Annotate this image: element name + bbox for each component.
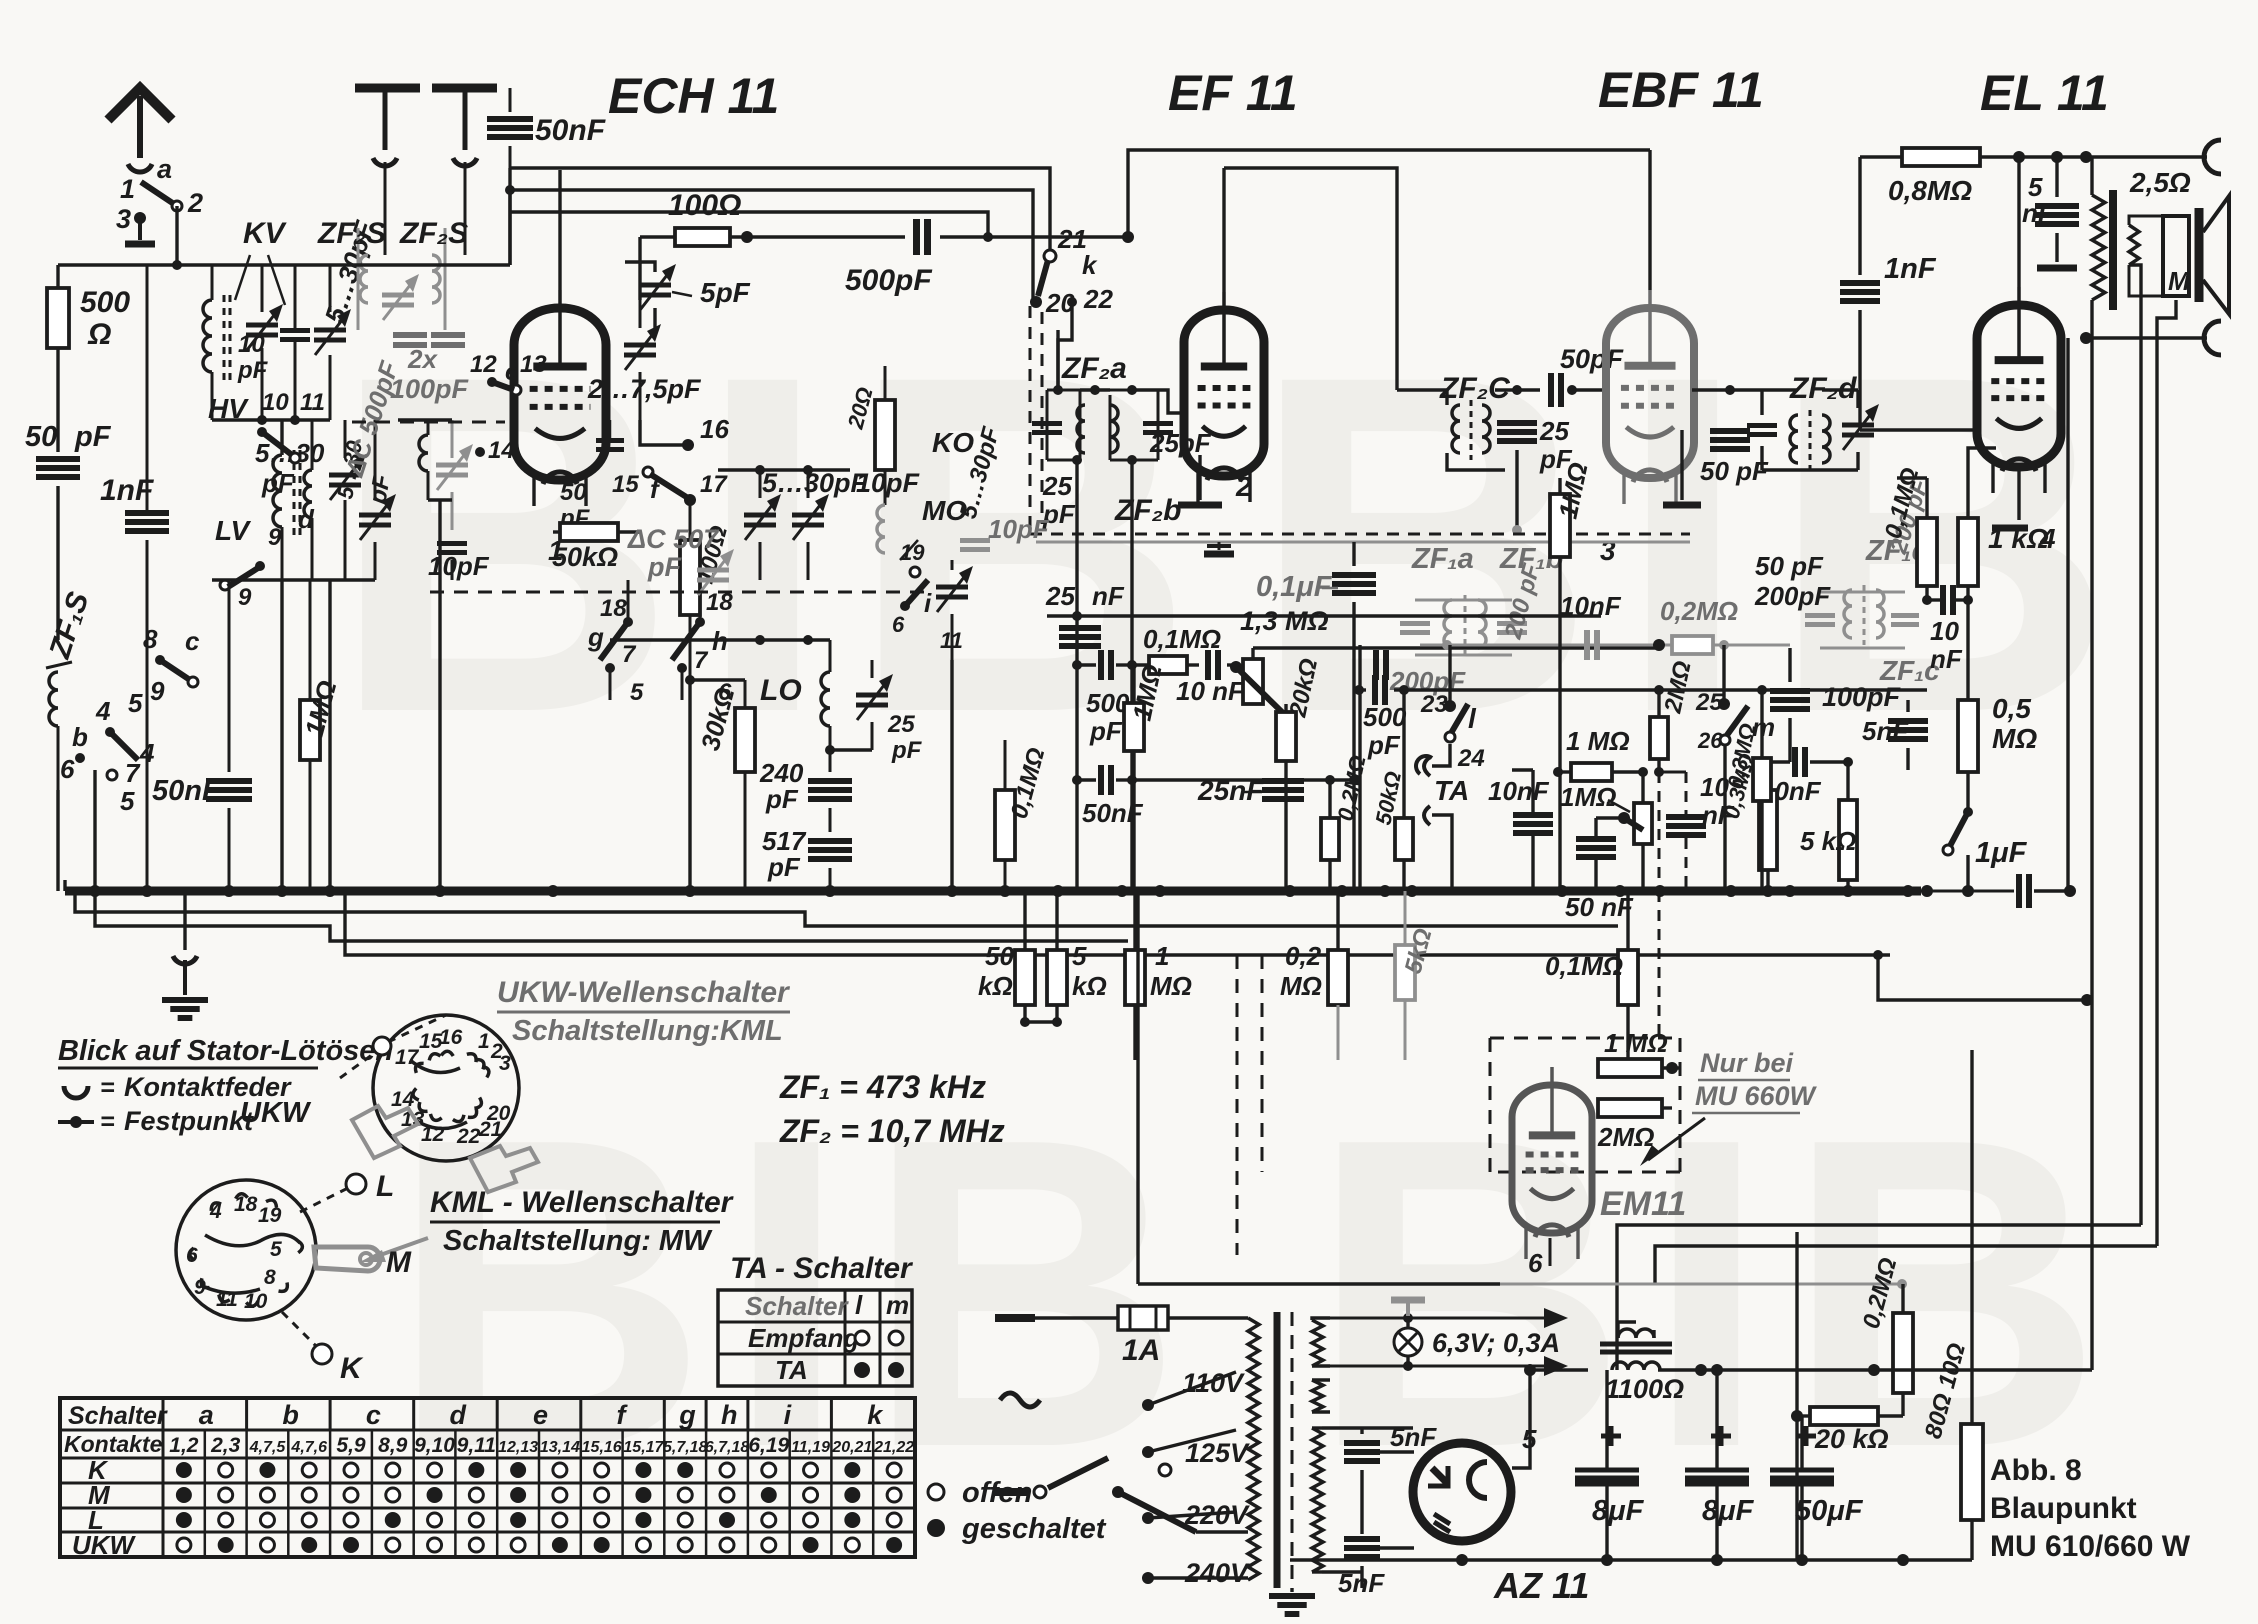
resistor 1Mohm h bbox=[1553, 726, 1664, 781]
dashed em11 link a bbox=[1658, 772, 1661, 1038]
svg-text:10nF: 10nF bbox=[1488, 776, 1550, 806]
resistor 20kohm bbox=[1791, 1407, 1903, 1454]
svg-text:d: d bbox=[449, 1400, 466, 1430]
svg-text:13,14: 13,14 bbox=[540, 1439, 580, 1456]
dashed em11 link b bbox=[1659, 772, 1686, 891]
svg-text:14: 14 bbox=[488, 437, 515, 464]
long vertical b bbox=[2066, 338, 2069, 891]
ukw filter gray box bbox=[317, 217, 468, 330]
vertical 1360 bbox=[1358, 645, 1361, 891]
svg-text:Blick auf Stator-Lötösen: Blick auf Stator-Lötösen bbox=[58, 1035, 393, 1067]
svg-text:22: 22 bbox=[456, 1125, 481, 1148]
label 4 under EL11 bbox=[2039, 523, 2056, 554]
svg-text:l: l bbox=[855, 1290, 863, 1320]
svg-text:ZF₁a: ZF₁a bbox=[1411, 543, 1474, 575]
osc LO coil bbox=[760, 640, 923, 764]
coil KV input bbox=[203, 265, 212, 420]
resistor 1Mohm mid bbox=[1550, 460, 1594, 891]
capacitor 100pF bbox=[1770, 682, 1902, 712]
svg-text:13: 13 bbox=[520, 351, 547, 378]
svg-text:kΩ: kΩ bbox=[1072, 971, 1107, 1001]
svg-text:5: 5 bbox=[1072, 941, 1087, 971]
trimmer 5-30 pF lower bbox=[332, 420, 396, 580]
svg-text:18: 18 bbox=[600, 595, 627, 622]
wafer KML rotor bbox=[200, 1234, 300, 1293]
svg-text:pF: pF bbox=[261, 468, 295, 498]
arrow nurbei bbox=[1640, 1118, 1705, 1166]
resistor 500ohm bbox=[47, 265, 130, 351]
resistor 50kohm osc bbox=[552, 523, 640, 572]
svg-text:6,7,18: 6,7,18 bbox=[705, 1439, 750, 1456]
wire ECH11 anode top bbox=[558, 170, 561, 290]
capacitor 10nF right bbox=[1760, 747, 1853, 806]
svg-text:e: e bbox=[505, 359, 518, 386]
heater arrows bbox=[1330, 1308, 1568, 1376]
tap 220V bbox=[1142, 1500, 1250, 1530]
capacitor 500pF coupling2 bbox=[1086, 650, 1386, 746]
svg-text:AZ 11: AZ 11 bbox=[1493, 1565, 1589, 1606]
svg-text:50μF: 50μF bbox=[1795, 1495, 1864, 1527]
svg-text:Kontakte: Kontakte bbox=[64, 1431, 163, 1457]
capacitor 1nF bbox=[100, 265, 169, 891]
svg-text:d: d bbox=[298, 504, 315, 534]
capacitor 10nF pair bbox=[1922, 585, 1973, 674]
svg-text:6,19: 6,19 bbox=[748, 1434, 789, 1457]
capacitor 10pF osc bbox=[428, 544, 490, 582]
svg-text:7: 7 bbox=[694, 647, 709, 674]
svg-text:pF: pF bbox=[364, 471, 396, 507]
row y780 bbox=[1077, 765, 1144, 828]
svg-text:i: i bbox=[924, 588, 932, 618]
wire f col bbox=[685, 675, 745, 891]
resistor 100ohm2 bbox=[680, 500, 733, 680]
switch f 15-17 bbox=[559, 420, 728, 532]
speaker bbox=[2129, 196, 2229, 314]
wire HT to AZ bbox=[1322, 1428, 1413, 1572]
bottom line bbox=[1290, 1554, 1972, 1566]
svg-text:HV: HV bbox=[208, 393, 249, 424]
svg-text:KO: KO bbox=[932, 427, 974, 458]
wire 5nF to AZ bbox=[1380, 1452, 1414, 1548]
svg-text:=: = bbox=[100, 1108, 115, 1136]
svg-text:50nF: 50nF bbox=[152, 775, 221, 807]
svg-text:1nF: 1nF bbox=[100, 474, 154, 507]
svg-text:geschaltet: geschaltet bbox=[961, 1513, 1107, 1545]
svg-text:100pF: 100pF bbox=[390, 374, 470, 404]
tap 240V bbox=[1142, 1558, 1250, 1588]
contact table kontakte row bbox=[64, 1430, 914, 1557]
tube EBF11 bbox=[1606, 290, 1694, 504]
svg-text:8μF: 8μF bbox=[1702, 1495, 1755, 1527]
hook out top bbox=[2204, 140, 2221, 174]
svg-text:ECH 11: ECH 11 bbox=[608, 68, 779, 124]
legend offen bbox=[927, 1477, 1107, 1545]
dashed pair k bbox=[1030, 306, 1042, 534]
capacitor 50nF top bbox=[487, 88, 606, 190]
svg-text:1,2: 1,2 bbox=[169, 1434, 199, 1457]
svg-text:25: 25 bbox=[1042, 471, 1072, 501]
wire top row input bbox=[177, 263, 330, 266]
svg-text:20: 20 bbox=[486, 1102, 511, 1125]
svg-text:a: a bbox=[199, 1400, 214, 1430]
resistor 50kohm col bbox=[978, 891, 1035, 1022]
rail outer bbox=[510, 168, 1050, 250]
potentiometer 1Mohm bbox=[1618, 772, 1652, 891]
wire node row bbox=[58, 260, 182, 270]
wire bus left end bbox=[63, 880, 66, 891]
label 5-30 pF small bbox=[255, 438, 325, 498]
svg-text:19: 19 bbox=[900, 540, 925, 565]
svg-text:h: h bbox=[721, 1400, 738, 1430]
IF ZF1d gray bbox=[1754, 475, 1940, 686]
transformer heater sec bbox=[1312, 1318, 1330, 1366]
shield ground tee bbox=[1204, 542, 1234, 554]
svg-text:3: 3 bbox=[1600, 535, 1616, 566]
tube EF11 bbox=[1184, 292, 1264, 502]
svg-text:500: 500 bbox=[1363, 702, 1407, 732]
wire gray diode line bbox=[1420, 640, 1790, 650]
label Blick bbox=[58, 1035, 393, 1068]
svg-text:8μF: 8μF bbox=[1592, 1495, 1645, 1527]
svg-text:19: 19 bbox=[258, 1204, 282, 1227]
switch g h contacts bbox=[587, 580, 733, 706]
label KV bbox=[235, 217, 288, 305]
svg-text:kΩ: kΩ bbox=[978, 971, 1013, 1001]
svg-text:MU 660W: MU 660W bbox=[1695, 1081, 1818, 1111]
svg-text:50nF: 50nF bbox=[535, 114, 606, 147]
capacitor 10nF black bbox=[1666, 772, 1735, 835]
svg-text:50 pF: 50 pF bbox=[1700, 456, 1769, 486]
transformer core bbox=[1277, 1312, 1292, 1588]
svg-text:Ω: Ω bbox=[87, 318, 111, 351]
trimmer LV bbox=[329, 420, 366, 580]
capacitor 500pF coupling bbox=[845, 219, 1134, 297]
svg-text:TA - Schalter: TA - Schalter bbox=[730, 1252, 914, 1285]
svg-text:12: 12 bbox=[470, 351, 497, 378]
svg-text:5…30pF: 5…30pF bbox=[762, 468, 869, 498]
tube ECH11 bbox=[514, 290, 606, 506]
capacitor 0.1uF bbox=[1256, 542, 1376, 891]
svg-text:9,10: 9,10 bbox=[414, 1434, 455, 1457]
svg-text:M: M bbox=[386, 1246, 412, 1279]
trimmer KV bbox=[246, 265, 283, 420]
svg-text:20,21: 20,21 bbox=[831, 1439, 872, 1456]
wafer UKW contacts bbox=[412, 1051, 491, 1124]
svg-text:UKW-Wellenschalter: UKW-Wellenschalter bbox=[497, 976, 791, 1009]
resistor 0.1Mohm right bbox=[1880, 465, 1937, 600]
wire LO trim bottom bbox=[830, 748, 872, 751]
capacitor 5nF b bbox=[1338, 1539, 1385, 1598]
svg-text:10nF: 10nF bbox=[1560, 591, 1622, 621]
core HV bbox=[294, 450, 300, 535]
svg-text:50 pF: 50 pF bbox=[1755, 551, 1824, 581]
capacitor 25nF branch bbox=[1197, 775, 1304, 806]
IF transformer ZF2a label bbox=[1061, 352, 1127, 385]
resistor 0.1Mohm col bbox=[1545, 891, 1638, 1060]
wire 50nF down bbox=[330, 185, 515, 265]
wire AZ11 out bbox=[1512, 1370, 1537, 1468]
svg-text:3: 3 bbox=[116, 204, 131, 234]
svg-text:pF: pF bbox=[765, 784, 799, 814]
wire net gray bbox=[1500, 1279, 1907, 1289]
EL11 cathode gnd bbox=[1992, 467, 2028, 528]
svg-text:10pF: 10pF bbox=[428, 551, 490, 581]
trimmer row osc bbox=[718, 465, 921, 580]
svg-text:L: L bbox=[376, 1170, 394, 1203]
wire EBF11 anode rail bbox=[1648, 150, 1651, 290]
label ECH11 bbox=[608, 68, 779, 124]
capacitor 517pF bbox=[762, 808, 852, 891]
svg-text:1μF: 1μF bbox=[1975, 837, 2028, 869]
svg-text:500pF: 500pF bbox=[845, 264, 932, 297]
capacitor 240pF bbox=[759, 745, 852, 814]
svg-text:1,3 MΩ: 1,3 MΩ bbox=[1240, 606, 1329, 636]
top rail out bbox=[1860, 151, 2207, 163]
rail mid bbox=[510, 190, 1033, 298]
svg-text:23: 23 bbox=[1420, 691, 1448, 718]
svg-text:10pF: 10pF bbox=[856, 468, 921, 498]
capacitor 5nF out bbox=[2022, 157, 2079, 268]
transformer HT sec bbox=[1312, 1428, 1323, 1572]
osc trimmer gray bbox=[436, 420, 473, 530]
tap 125V bbox=[1142, 1430, 1250, 1468]
tap 110V bbox=[1142, 1368, 1245, 1411]
svg-text:10pF: 10pF bbox=[988, 514, 1050, 544]
svg-text:LO: LO bbox=[760, 674, 802, 707]
wafer KML contacts bbox=[189, 1193, 303, 1307]
capacitor 50pF coupling bbox=[1551, 344, 1625, 407]
TA hooks bbox=[1416, 744, 1469, 891]
resistor 20kohm pot bbox=[1276, 656, 1323, 891]
wire zf1c col bbox=[1788, 648, 1791, 762]
svg-text:nF: nF bbox=[1930, 644, 1963, 674]
elcap 8uF b bbox=[1685, 1364, 1755, 1560]
switch d bbox=[257, 427, 300, 463]
resistor 1Mohm em bbox=[1598, 1028, 1680, 1077]
wire y616 line bbox=[1047, 614, 1601, 617]
svg-text:UKW: UKW bbox=[240, 1097, 312, 1129]
svg-text:2: 2 bbox=[187, 188, 203, 218]
wire 2-7.5 branch bbox=[640, 262, 688, 445]
svg-text:EBF 11: EBF 11 bbox=[1598, 62, 1764, 118]
wire 50pF down bbox=[56, 486, 59, 640]
resistor 1kohm bbox=[1958, 448, 2049, 600]
capacitor 10pF gray bbox=[960, 514, 1050, 550]
mains switch bbox=[995, 1458, 1248, 1532]
svg-text:125V: 125V bbox=[1185, 1438, 1250, 1468]
svg-text:8: 8 bbox=[143, 624, 158, 654]
resistor 1Mohm vert bbox=[1124, 662, 1168, 891]
ground bus bbox=[65, 887, 2014, 896]
switch right bbox=[1943, 807, 1973, 891]
svg-text:25pF: 25pF bbox=[1149, 428, 1212, 458]
return wire B bbox=[95, 891, 1128, 941]
svg-text:=: = bbox=[100, 1074, 115, 1102]
svg-text:6: 6 bbox=[186, 1244, 198, 1267]
transformer primary bbox=[1248, 1318, 1259, 1580]
svg-text:22: 22 bbox=[1083, 284, 1113, 314]
svg-text:12,13: 12,13 bbox=[498, 1439, 538, 1456]
svg-text:8,9: 8,9 bbox=[378, 1434, 408, 1457]
osc MO coil bbox=[892, 423, 1005, 660]
wire ZF2c down bbox=[1512, 450, 1522, 535]
long vertical d bbox=[2129, 265, 2141, 1225]
capacitor 1nF right bbox=[1840, 253, 1937, 430]
svg-text:1A: 1A bbox=[1122, 1334, 1160, 1367]
svg-text:5: 5 bbox=[270, 1238, 282, 1261]
arrow KML bbox=[360, 1238, 428, 1262]
resistor 0.3Mohm v bbox=[1722, 690, 1771, 891]
resistor 1Mohm col bbox=[1125, 891, 1192, 1060]
svg-text:pF: pF bbox=[891, 737, 923, 764]
capacitor 10nF right ta bbox=[1488, 770, 1553, 891]
svg-text:4,7,5: 4,7,5 bbox=[249, 1439, 287, 1456]
svg-text:10: 10 bbox=[262, 389, 289, 416]
svg-text:TA: TA bbox=[775, 1355, 808, 1385]
svg-text:UKW: UKW bbox=[72, 1530, 137, 1560]
pilot lamp bbox=[1394, 1313, 1560, 1371]
svg-text:1: 1 bbox=[120, 174, 135, 204]
svg-text:ΔC 507: ΔC 507 bbox=[627, 524, 720, 554]
TA table title bbox=[730, 1252, 914, 1285]
svg-text:3: 3 bbox=[499, 1052, 511, 1075]
svg-text:0,8MΩ: 0,8MΩ bbox=[1888, 175, 1972, 206]
svg-text:50kΩ: 50kΩ bbox=[552, 542, 618, 572]
resistor 80ohm bbox=[1920, 1050, 1983, 1560]
wire 500ohm down bbox=[56, 348, 59, 452]
label 6 bbox=[1528, 1238, 1550, 1278]
coil ZF1S bbox=[46, 662, 72, 790]
legend Kontaktfeder bbox=[64, 1072, 292, 1102]
label EM11 bbox=[1600, 1185, 1686, 1223]
wire ZF2b bottom drop bbox=[1127, 460, 1137, 891]
svg-text:4: 4 bbox=[209, 1200, 222, 1223]
B+ line bbox=[1658, 1364, 2092, 1376]
svg-text:b: b bbox=[282, 1400, 299, 1430]
svg-text:2…7,5pF: 2…7,5pF bbox=[587, 374, 702, 404]
IF transformer ZF2ab bbox=[1032, 330, 1212, 529]
svg-text:6: 6 bbox=[892, 612, 905, 637]
wafer gray keys bbox=[352, 1106, 538, 1192]
svg-text:i: i bbox=[784, 1400, 792, 1430]
svg-text:Blaupunkt: Blaupunkt bbox=[1990, 1492, 2137, 1525]
svg-text:50nF: 50nF bbox=[1082, 798, 1144, 828]
wire 100ohm left elbow bbox=[625, 237, 640, 262]
label EF11 bbox=[1168, 65, 1298, 121]
switch e 12-13-14 bbox=[470, 351, 547, 464]
output transformer bbox=[2092, 157, 2191, 338]
capacitor 10nF gray bbox=[1540, 591, 1648, 660]
svg-text:4,7,6: 4,7,6 bbox=[290, 1439, 327, 1456]
svg-text:9: 9 bbox=[150, 676, 165, 706]
svg-text:10: 10 bbox=[238, 331, 265, 358]
TA table bbox=[718, 1290, 912, 1386]
capacitor 2-7.5pF bbox=[587, 300, 702, 420]
wire out lower bbox=[2080, 321, 2221, 355]
svg-text:0,2: 0,2 bbox=[1285, 941, 1322, 971]
resistor 30kohm bbox=[695, 680, 755, 891]
wire EBF11 top to left rail bbox=[1128, 150, 1650, 237]
svg-text:ZF₂a: ZF₂a bbox=[1061, 352, 1127, 385]
wire 0.1M top bbox=[1897, 476, 1927, 479]
resistor 0.2Mohm ta bbox=[1321, 753, 1371, 891]
svg-text:ZF₂ = 10,7 MHz: ZF₂ = 10,7 MHz bbox=[779, 1113, 1005, 1149]
svg-text:EM11: EM11 bbox=[1600, 1185, 1686, 1223]
svg-text:0,5: 0,5 bbox=[1992, 693, 2031, 724]
svg-text:9,11: 9,11 bbox=[457, 1434, 496, 1457]
svg-text:9: 9 bbox=[268, 524, 282, 551]
long vertical a bbox=[1136, 891, 1139, 1284]
tube EL11 bbox=[1977, 287, 2061, 493]
osc KO coil bbox=[842, 366, 974, 553]
svg-text:50: 50 bbox=[560, 479, 587, 506]
svg-text:11: 11 bbox=[940, 628, 963, 653]
svg-text:24: 24 bbox=[1457, 745, 1485, 772]
label UKW-Wellenschalter bbox=[497, 976, 791, 1047]
svg-text:Festpunkt: Festpunkt bbox=[124, 1106, 254, 1136]
svg-text:c: c bbox=[185, 626, 200, 656]
wire antenna to node bbox=[175, 206, 178, 265]
svg-text:pF: pF bbox=[74, 421, 112, 453]
svg-text:K: K bbox=[340, 1352, 364, 1385]
IF ZF2c bbox=[1397, 372, 1573, 474]
resistor 0.1Mohm osc bbox=[995, 740, 1051, 891]
wire osc mid row bbox=[610, 635, 830, 645]
contact table group header bbox=[68, 1398, 884, 1430]
svg-text:nF: nF bbox=[1702, 800, 1735, 830]
transformer mid sec bbox=[1312, 1380, 1330, 1412]
svg-text:pF: pF bbox=[1089, 716, 1123, 746]
trimmer dC507 gray bbox=[627, 524, 734, 595]
svg-text:a: a bbox=[157, 154, 172, 184]
svg-text:8: 8 bbox=[264, 1266, 276, 1289]
legend Festpunkt bbox=[58, 1106, 254, 1136]
svg-text:25: 25 bbox=[1695, 689, 1723, 716]
svg-text:16: 16 bbox=[700, 414, 729, 444]
svg-text:50pF: 50pF bbox=[1560, 344, 1625, 374]
resistor 0.3Mohm bbox=[1719, 751, 1777, 891]
svg-text:4: 4 bbox=[95, 696, 111, 726]
svg-text:1: 1 bbox=[1155, 941, 1169, 971]
long vertical e bbox=[2157, 300, 2176, 1246]
IF ZF1ab gray bbox=[1389, 543, 1563, 696]
svg-text:5nF: 5nF bbox=[1862, 716, 1909, 746]
label Abb8 bbox=[1990, 1454, 2191, 1563]
svg-text:Schalter: Schalter bbox=[745, 1291, 849, 1321]
resistor 1Mohm left bbox=[299, 580, 343, 891]
switch l bbox=[1420, 645, 1485, 772]
resistor 0.2Mohm col bbox=[1280, 891, 1348, 1060]
svg-text:1100Ω: 1100Ω bbox=[1605, 1374, 1684, 1404]
wafer KML numbers bbox=[186, 1193, 282, 1313]
antenna bbox=[108, 88, 172, 172]
EF11 cathode ground bbox=[1178, 455, 1222, 505]
resistor 0.5Mohm bbox=[1958, 600, 2037, 812]
svg-text:100pF: 100pF bbox=[1822, 682, 1902, 712]
return wire E bbox=[1873, 950, 2093, 1006]
svg-text:2: 2 bbox=[1235, 471, 1252, 502]
wafer UKW rotor bbox=[410, 1060, 467, 1129]
label 3 under EBF11 bbox=[1600, 535, 1616, 566]
label Nurbei bbox=[1692, 1048, 1818, 1113]
wafer KML circle bbox=[176, 1180, 316, 1320]
resistor 2Mohm em bbox=[1597, 1099, 1672, 1152]
wire EF11 grid line bbox=[1184, 416, 1187, 419]
label 1 under ECH11 bbox=[548, 535, 564, 566]
svg-text:EL 11: EL 11 bbox=[1980, 65, 2109, 121]
switch k contacts bbox=[1030, 224, 1113, 390]
switch b contacts bbox=[60, 688, 155, 816]
